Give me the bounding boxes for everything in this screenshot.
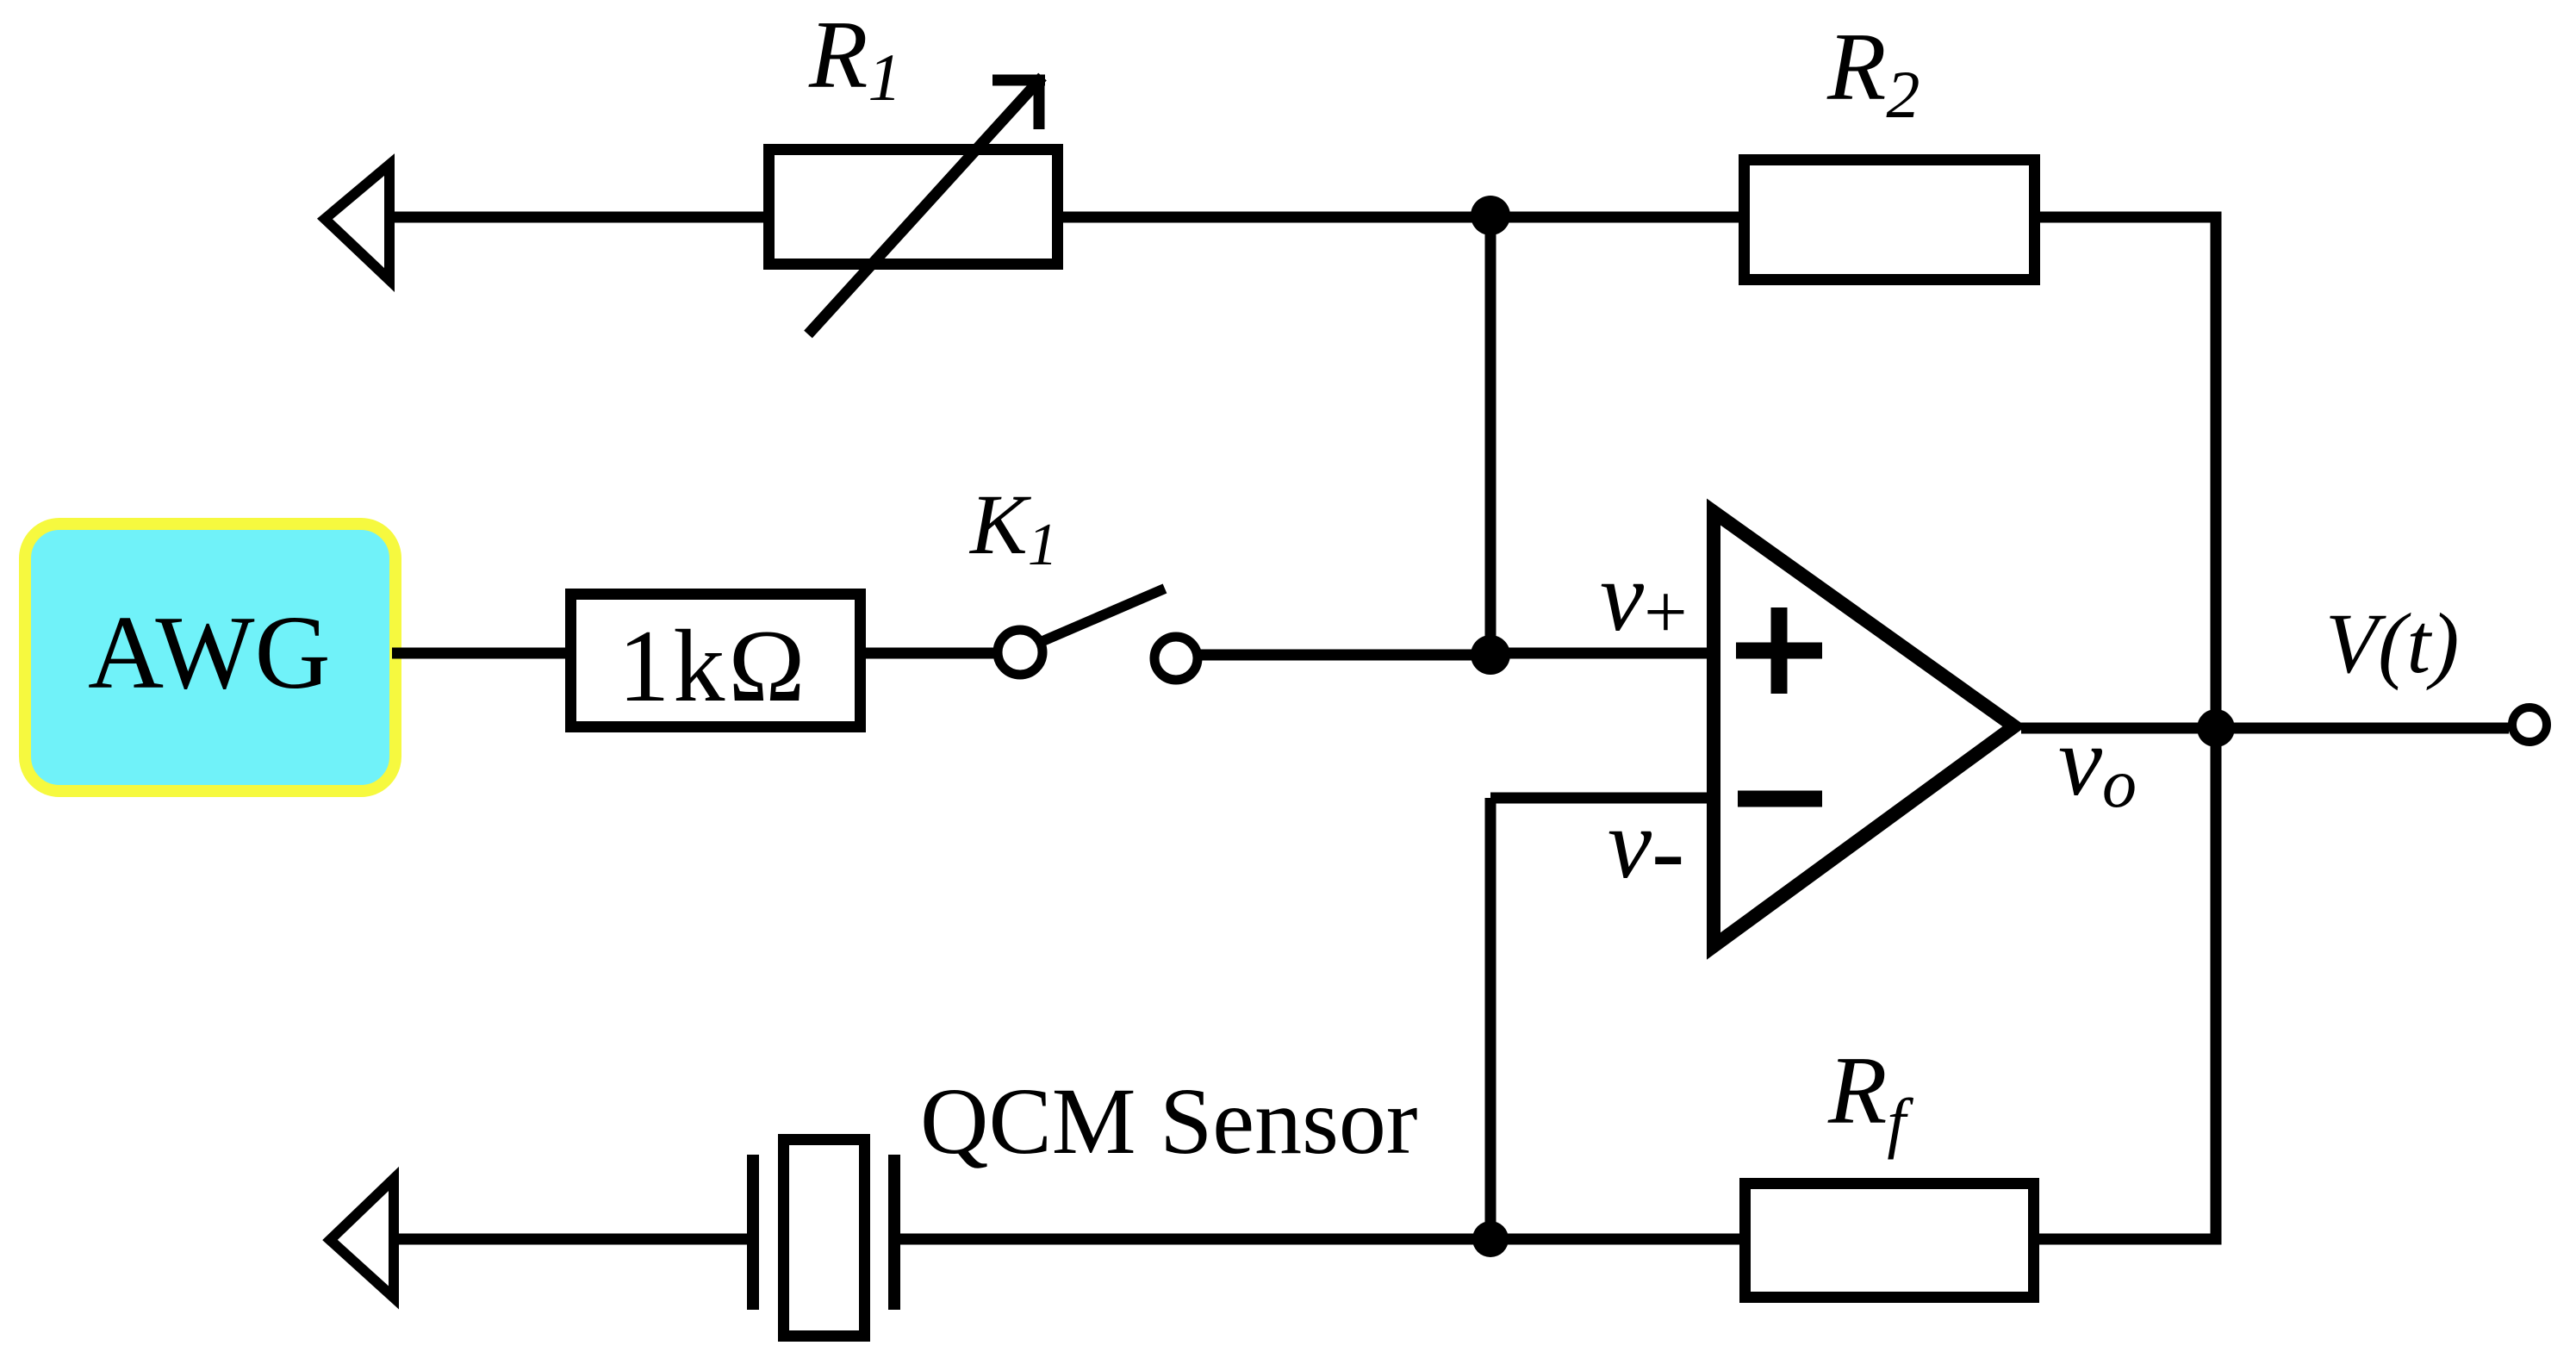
source AWG <box>25 524 395 791</box>
svg-text:QCM Sensor: QCM Sensor <box>920 1068 1418 1174</box>
op-amp U1 <box>1714 512 2014 946</box>
svg-text:AWG: AWG <box>88 595 331 711</box>
wire: node A to R2 <box>1490 212 1744 223</box>
svg-text:R1: R1 <box>808 2 901 115</box>
resistor R2 <box>1745 160 2035 280</box>
wire: R1 to node A <box>1063 212 1490 223</box>
resistor 1kOhm <box>571 595 861 727</box>
svg-text:V(t): V(t) <box>2325 595 2459 691</box>
QCM sensor crystal body <box>784 1140 865 1336</box>
ground GND1 (top-left) <box>325 165 389 280</box>
svg-text:v+: v+ <box>1600 542 1688 655</box>
wire: node B to op-amp non-inverting input <box>1490 648 1710 659</box>
wire: 1k resistor to switch K1 <box>866 648 999 659</box>
wire: vertical from node A down to node B <box>1485 217 1496 655</box>
node C (bottom junction) <box>1472 1221 1509 1257</box>
wire: output node to terminal <box>2216 723 2509 734</box>
wire: node C to Rf <box>1490 1234 1745 1245</box>
op-amp plus sign <box>1736 607 1822 694</box>
wire: bottom ground to QCM sensor <box>394 1234 748 1245</box>
ground GND2 (bottom-left) <box>330 1179 394 1298</box>
wire: switch to node B <box>1198 650 1490 661</box>
svg-text:1kΩ: 1kΩ <box>618 608 808 723</box>
terminal V(t) (open circle) <box>2512 707 2547 742</box>
wire: vertical v- line down to node C <box>1485 798 1496 1239</box>
wire: R2 right to top-right corner down to output node <box>2040 217 2216 729</box>
wire: Rf right to bottom-right corner up to output node <box>2039 728 2216 1239</box>
op-amp minus sign <box>1738 791 1822 807</box>
wire: AWG to 1k resistor <box>392 648 570 659</box>
node A (top junction) <box>1471 196 1510 235</box>
switch K1 left contact <box>998 630 1042 675</box>
svg-text:K1: K1 <box>968 477 1058 578</box>
node D (output junction) <box>2197 709 2235 747</box>
variable-resistor arrow through R1 <box>808 75 1045 334</box>
QCM sensor right plate <box>888 1155 900 1310</box>
svg-text:v-: v- <box>1608 789 1684 906</box>
node B (v+ junction) <box>1471 635 1510 675</box>
wire: op-amp output to output node <box>2021 723 2216 734</box>
svg-text:R2: R2 <box>1826 14 1920 132</box>
switch K1 right contact <box>1154 637 1198 680</box>
resistor R1 (variable) <box>769 150 1058 265</box>
wire: top ground to R1 <box>389 212 768 223</box>
svg-text:Rf: Rf <box>1827 1037 1913 1160</box>
resistor Rf <box>1745 1184 2034 1298</box>
switch K1 lever <box>1041 589 1165 642</box>
wire: QCM sensor to node C <box>900 1234 1490 1245</box>
QCM sensor left plate <box>747 1155 759 1310</box>
wire: inverting input from op-amp to left <box>1490 793 1710 804</box>
